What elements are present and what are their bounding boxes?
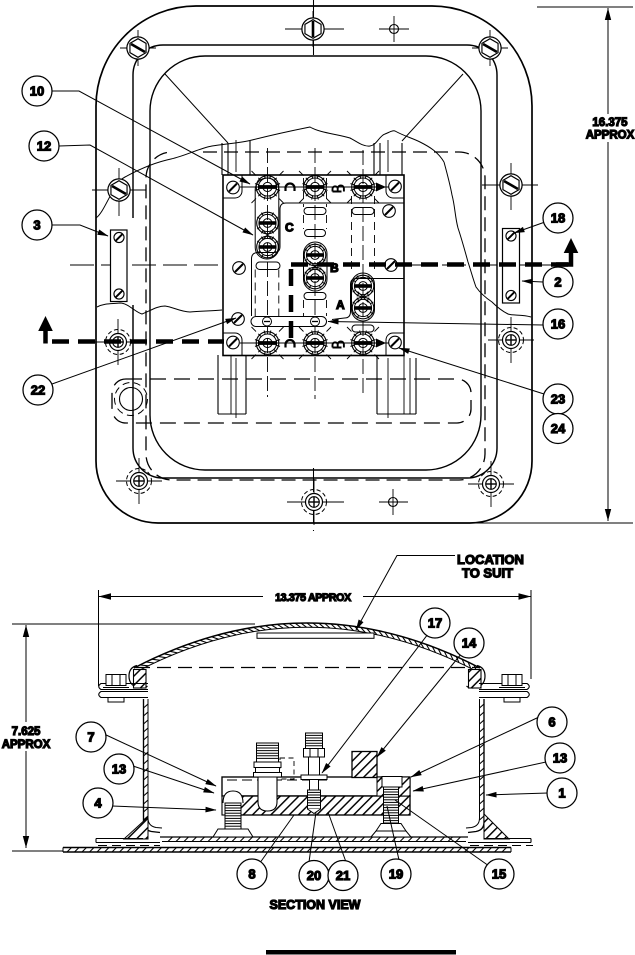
C stud cup — [258, 777, 277, 811]
svg-text:12: 12 — [37, 139, 51, 154]
flange screw mid-left — [92, 168, 146, 216]
base plate hatch ticks — [67, 848, 507, 853]
leader balloon 15 — [395, 800, 489, 866]
left rolled rim with clamp — [129, 666, 148, 689]
A pair obround — [352, 273, 375, 321]
svg-text:TO SUIT: TO SUIT — [462, 566, 513, 581]
bottom black bar — [266, 950, 456, 955]
left conduit plate screws — [114, 232, 124, 242]
outer flange edge — [96, 6, 532, 523]
column centerlines — [240, 148, 393, 399]
cover skirt rect2 — [133, 45, 497, 478]
A column dashed lines — [351, 196, 353, 273]
leader balloon 1 — [486, 793, 548, 795]
left support stud — [223, 791, 243, 803]
right flange lips — [479, 684, 529, 690]
leader balloon 7 — [104, 734, 216, 786]
leader balloon 23 — [399, 348, 544, 394]
leader balloon 12 — [59, 145, 253, 235]
terminal upper plate — [222, 777, 410, 796]
centerline vertical top — [313, 0, 315, 58]
dome outer curve — [134, 623, 480, 668]
cross bolt bottom-right — [468, 461, 514, 507]
dome inner curve — [137, 627, 477, 671]
box right wall — [468, 699, 484, 833]
section cut line right stub — [556, 252, 571, 265]
svg-text:APPROX: APPROX — [586, 130, 635, 142]
svg-text:1: 1 — [558, 786, 565, 801]
plate edge screw right-up — [383, 205, 396, 218]
dashed floor sump rect — [112, 379, 471, 423]
right conduit plate screws — [506, 231, 516, 241]
C column dashed lines — [254, 270, 256, 317]
balloon 14 — [454, 628, 484, 658]
balloon 17 — [420, 608, 450, 638]
dimension 16.375 — [470, 7, 633, 523]
svg-text:16: 16 — [551, 317, 565, 332]
dome corner diagonal TL — [165, 74, 228, 143]
svg-text:10: 10 — [30, 84, 44, 99]
svg-text:23: 23 — [551, 392, 565, 407]
leader balloon 14 — [377, 648, 466, 757]
section cut line vertical jog — [289, 265, 294, 339]
balloon 13 right — [545, 743, 575, 773]
bar left end white block — [222, 796, 238, 815]
svg-text:16.375: 16.375 — [592, 117, 628, 129]
wall hatch ticks — [144, 704, 485, 842]
plate corner notch BL — [223, 333, 242, 356]
wavy break-out boundary bottom-left — [97, 303, 222, 314]
row mark C-rot bottom — [286, 340, 295, 347]
svg-text:22: 22 — [31, 383, 45, 398]
main insulator bar hatched — [238, 796, 410, 815]
dome hatch ticks — [140, 623, 477, 671]
leader balloon 8 — [257, 815, 294, 867]
leader balloon 4 — [112, 806, 216, 810]
svg-text:14: 14 — [462, 636, 477, 651]
row mark C-rot top — [286, 184, 295, 191]
section cut line right arrow — [564, 238, 579, 253]
small hole mark bottom — [389, 489, 398, 515]
svg-text:17: 17 — [428, 616, 442, 631]
plate corner screw BL — [227, 336, 240, 349]
flange screw TR — [472, 30, 508, 66]
plate edge screw right-mid — [385, 259, 398, 272]
flange screw top-center — [285, 11, 409, 47]
A pair screws — [352, 275, 374, 297]
dimension 13.375 — [99, 590, 532, 686]
balloon 2 — [543, 267, 573, 297]
balloon 8 — [237, 859, 267, 889]
svg-text:C: C — [285, 221, 294, 235]
plate edge screw left-mid — [233, 262, 246, 275]
plate corner screw BR — [389, 336, 402, 349]
box bottom — [160, 836, 468, 838]
svg-text:6: 6 — [548, 715, 555, 730]
dashed centerline in plate — [227, 779, 330, 781]
leader balloon 20 — [309, 812, 316, 862]
left foot plate — [96, 838, 143, 840]
leader balloon 22 — [52, 318, 236, 384]
right mounting leg — [374, 140, 416, 418]
link screw left — [263, 317, 272, 326]
right stud nut — [382, 777, 402, 788]
balloon 20 — [299, 861, 329, 891]
box left wall — [144, 699, 161, 833]
row mark arrow top — [376, 183, 386, 192]
right foot dashed — [470, 845, 533, 847]
svg-text:2: 2 — [554, 275, 561, 290]
svg-text:20: 20 — [307, 868, 321, 883]
flange screw TL — [120, 30, 156, 66]
long link oval bottom — [251, 317, 327, 327]
section cut line left arrow — [38, 316, 53, 331]
drain hole — [120, 388, 143, 411]
cross bolt mid-right — [488, 317, 534, 363]
cross bolt bottom-left — [116, 458, 162, 504]
dimension 7.625 — [12, 624, 255, 851]
hidden box wall dashed rect — [146, 152, 485, 480]
terminal screw top A — [347, 171, 379, 203]
pair serration ticks — [262, 230, 369, 303]
svg-text:APPROX: APPROX — [2, 739, 51, 751]
leader balloon 3 — [52, 225, 108, 236]
svg-text:13.375 APPROX: 13.375 APPROX — [275, 592, 351, 604]
cross bolt bottom-center — [287, 501, 408, 503]
left support foot — [213, 829, 253, 837]
svg-text:13: 13 — [112, 762, 126, 777]
svg-text:SECTION VIEW: SECTION VIEW — [270, 898, 361, 912]
balloon 24 — [543, 414, 573, 444]
A ovals — [352, 208, 374, 215]
hidden hole dashed rect — [280, 758, 294, 779]
cover plateau rect3 — [150, 56, 481, 470]
terminal screw bottom A — [347, 327, 379, 359]
balloon 18 — [543, 203, 573, 233]
balloon 15 — [484, 859, 514, 889]
link screw right — [311, 317, 320, 326]
right foot plate — [484, 838, 531, 840]
base plate — [63, 847, 511, 849]
left flange bolt — [103, 675, 129, 703]
balloon 16 — [543, 309, 573, 339]
right stud threads — [384, 787, 399, 823]
step line B/A — [332, 279, 404, 320]
B ovals — [304, 208, 326, 215]
leader balloon 6 — [411, 717, 539, 777]
leader balloon 2 — [522, 281, 543, 282]
plate corner notch TR — [386, 175, 404, 198]
small hole mark top — [390, 16, 399, 42]
row mark arrow bottom — [376, 339, 386, 348]
leader balloon 17 — [322, 634, 428, 773]
leader balloon 19 — [387, 806, 399, 860]
svg-text:8: 8 — [248, 867, 255, 882]
right flange bolt — [499, 675, 525, 703]
leader balloon 13 right — [413, 762, 546, 791]
leader balloon 21 — [328, 812, 346, 862]
right stud foot — [376, 824, 406, 832]
section cut line right horizontal — [291, 262, 571, 267]
wavy break-out boundary top — [96, 127, 444, 218]
terminal screw top B — [299, 171, 331, 203]
left foot dashed — [98, 845, 160, 847]
leader balloon 13 left — [133, 766, 214, 793]
balloon 1 — [547, 778, 577, 808]
left flange lips — [99, 684, 148, 690]
balloon 10 — [22, 76, 52, 106]
balloon 13 left — [104, 754, 134, 784]
right gusset — [484, 814, 509, 839]
balloon 4 — [83, 788, 113, 818]
right upper hatched portion — [377, 777, 410, 796]
plate corner screw TR — [389, 180, 402, 193]
terminal screw top C — [252, 171, 284, 203]
svg-text:21: 21 — [336, 868, 350, 883]
C column slot obround — [255, 178, 279, 259]
svg-text:24: 24 — [551, 421, 566, 436]
flange screw mid-right — [482, 163, 538, 210]
left mounting leg — [218, 140, 250, 418]
balloon 12 — [29, 131, 59, 161]
C oval — [256, 262, 280, 270]
svg-text:4: 4 — [94, 796, 102, 811]
svg-text:19: 19 — [389, 867, 403, 882]
svg-text:15: 15 — [492, 867, 506, 882]
leader balloon 10 — [52, 91, 250, 184]
B pair screws — [304, 244, 326, 266]
B stud — [301, 733, 327, 814]
C stud threads — [254, 743, 282, 777]
right conduit plate — [503, 229, 520, 304]
left conduit plate — [111, 230, 128, 302]
row mark B-rot bottom — [333, 341, 344, 347]
left gusset — [124, 817, 148, 839]
B column dashed lines — [303, 178, 305, 207]
svg-text:18: 18 — [551, 211, 565, 226]
centerline vertical bottom — [313, 468, 315, 531]
terminal plate outline — [223, 175, 404, 356]
plate edge screw left-low — [232, 313, 245, 326]
balloon 23 — [543, 384, 573, 414]
B pair obround — [304, 242, 328, 291]
dome corner diagonal TR — [402, 74, 463, 141]
balloon 7 — [76, 722, 106, 752]
section cut line left horizontal — [52, 339, 224, 344]
svg-text:7: 7 — [87, 730, 94, 745]
svg-text:3: 3 — [33, 218, 40, 233]
svg-text:13: 13 — [553, 751, 567, 766]
balloon 21 — [328, 861, 358, 891]
balloon 22 — [23, 375, 53, 405]
wavy break-out boundary right — [444, 162, 531, 317]
plate corner screw TL — [227, 181, 240, 194]
terminal screw bottom B — [299, 327, 331, 359]
svg-text:A: A — [336, 298, 345, 312]
cross bolt mid-left — [95, 319, 141, 365]
floating bushing block hatched — [352, 752, 377, 778]
step line C/B — [252, 203, 405, 316]
reinforcement plate on dome — [257, 633, 374, 638]
plate corner notch TL — [223, 175, 242, 198]
balloon 19 — [381, 859, 411, 889]
row mark B-rot top — [333, 185, 344, 191]
centerline horizontal — [70, 264, 563, 266]
svg-text:7.625: 7.625 — [12, 726, 41, 738]
leader balloon 16 — [328, 322, 543, 326]
balloon 3 — [22, 210, 52, 240]
right rolled rim with clamp — [467, 666, 486, 689]
leader balloon 18 — [514, 222, 545, 233]
C pair screws — [257, 212, 279, 234]
plate corner notch BR — [386, 333, 404, 356]
terminal screw bottom C — [252, 327, 284, 359]
dome gasket dashed line — [136, 667, 479, 669]
balloon 6 — [537, 707, 567, 737]
